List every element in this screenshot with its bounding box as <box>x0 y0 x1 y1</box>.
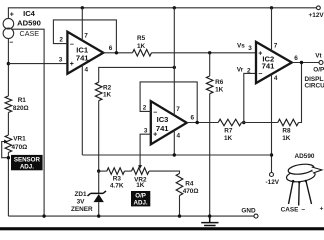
wire ground rail <box>8 215 254 217</box>
svg-text:7: 7 <box>84 33 88 40</box>
svg-text:2: 2 <box>247 67 251 74</box>
svg-text:−: − <box>258 71 262 78</box>
wire +12V top rail <box>8 8 317 19</box>
svg-text:ZD1: ZD1 <box>74 191 87 198</box>
svg-text:-12V: -12V <box>266 179 280 186</box>
resistor R8 1K <box>278 119 299 126</box>
wire IC2 output pin 6 <box>292 62 319 64</box>
svg-text:AD590: AD590 <box>17 18 41 27</box>
svg-text:7: 7 <box>274 43 278 50</box>
svg-text:3: 3 <box>248 45 252 52</box>
resistor R4 470ohm <box>176 174 183 196</box>
svg-text:1K: 1K <box>103 91 112 98</box>
svg-text:−: − <box>70 42 74 49</box>
svg-text:4: 4 <box>177 132 181 139</box>
label box SENSOR ADJ. <box>11 155 43 170</box>
svg-text:820Ω: 820Ω <box>13 105 29 112</box>
svg-text:1K: 1K <box>215 87 224 94</box>
svg-text:4.7K: 4.7K <box>110 183 124 190</box>
pin 4 IC3 <box>173 130 175 155</box>
pin 7 IC2 <box>271 8 273 51</box>
svg-text:CASE: CASE <box>20 29 40 38</box>
svg-text:+: + <box>153 131 157 138</box>
svg-text:+12V: +12V <box>309 12 324 19</box>
resistor R3 4.7K <box>99 170 107 172</box>
node Vs line / R6 <box>208 51 211 54</box>
AD590 package drawing <box>286 163 322 206</box>
svg-text:7: 7 <box>176 106 180 113</box>
svg-text:1K: 1K <box>137 43 146 50</box>
zener diode ZD1 3V <box>98 171 100 216</box>
wire IC3 pin 3 from VR2 wiper <box>140 134 151 167</box>
svg-text:AD590: AD590 <box>295 153 315 160</box>
node R3/R2/ZD1 <box>97 169 100 172</box>
pin 7 IC1 <box>81 8 83 41</box>
node IC3 pin4 on -12V run <box>173 153 176 156</box>
svg-text:R2: R2 <box>103 84 112 91</box>
svg-text:R6: R6 <box>215 79 224 86</box>
node case/rail <box>42 214 45 217</box>
wire IC1 pin 3 <box>8 63 67 65</box>
svg-text:R4: R4 <box>185 180 194 187</box>
wire IC2 pin 2 riser <box>244 73 256 122</box>
svg-text:741: 741 <box>156 124 169 133</box>
pin 4 IC2 down to -12V <box>271 74 273 172</box>
svg-text:VR1: VR1 <box>13 136 26 143</box>
svg-text:470Ω: 470Ω <box>183 188 199 195</box>
svg-text:−: − <box>153 110 157 117</box>
svg-text:3V: 3V <box>77 198 86 205</box>
wire IC1 output pin 6 (Vs line to IC2 pin 3) <box>103 52 256 54</box>
potentiometer VR1 470ohm <box>5 135 12 153</box>
svg-text:GND: GND <box>241 208 256 215</box>
node pin3 junction <box>7 62 10 65</box>
svg-text:6: 6 <box>294 55 298 62</box>
svg-text:IC3: IC3 <box>157 115 169 124</box>
op-amp IC2 741 <box>256 42 292 83</box>
svg-text:470Ω: 470Ω <box>12 144 28 151</box>
pin 4 IC1 <box>81 65 83 155</box>
svg-text:R7: R7 <box>224 127 233 134</box>
svg-text:IC4: IC4 <box>23 9 36 18</box>
wire -12V run (IC1 pin4 to IC2 pin4) <box>82 154 271 156</box>
label box O/P ADJ. <box>131 191 150 206</box>
wire left sensor column <box>7 39 9 217</box>
current source IC4 AD590 <box>3 18 14 29</box>
node rail-IC2 pin7 <box>270 6 273 9</box>
wire IC3 pin 2 + feedback loop to output <box>140 82 197 123</box>
node output/R8 <box>300 61 303 64</box>
wire zener bias from +12V line to R2 <box>99 67 175 82</box>
svg-text:R8: R8 <box>282 127 291 134</box>
svg-text:741: 741 <box>76 53 89 62</box>
terminal GND <box>254 214 258 218</box>
node R6/rail/ground <box>208 214 211 217</box>
wire AD590 case lead <box>12 29 44 216</box>
node R7/R8/IC2 pin2 <box>242 121 245 124</box>
svg-text:ADJ.: ADJ. <box>134 200 148 207</box>
svg-text:3: 3 <box>144 128 148 135</box>
wire IC3 output pin 6 <box>187 122 219 124</box>
potentiometer VR2 1K <box>125 170 132 172</box>
svg-text:Vs: Vs <box>237 42 245 49</box>
svg-text:2: 2 <box>143 105 147 112</box>
svg-text:−: − <box>301 206 305 213</box>
svg-text:ZENER: ZENER <box>71 206 93 213</box>
node IC3 out / feedback <box>196 121 199 124</box>
svg-text:2: 2 <box>59 37 63 44</box>
svg-text:R5: R5 <box>137 35 146 42</box>
node IC1 out / feedback <box>115 51 118 54</box>
svg-text:R3: R3 <box>113 176 122 183</box>
svg-text:6: 6 <box>191 115 195 122</box>
svg-text:1K: 1K <box>224 135 233 142</box>
svg-text:3: 3 <box>59 56 63 63</box>
resistor R7 1K <box>218 119 241 126</box>
svg-text:1K: 1K <box>136 182 145 189</box>
svg-text:4: 4 <box>85 67 89 74</box>
bottom border bar <box>0 227 324 230</box>
svg-text:R1: R1 <box>18 97 27 104</box>
svg-text:6: 6 <box>109 45 113 52</box>
svg-text:+: + <box>70 61 74 68</box>
wire IC1 pin 2 + feedback loop to pin 6 <box>53 20 116 53</box>
node rail-IC3 pin7 <box>173 6 176 9</box>
terminal +12V <box>317 6 321 10</box>
wire VR2 to R4 <box>149 171 180 173</box>
svg-text:CIRCUIT: CIRCUIT <box>305 83 324 90</box>
node bias tap on IC3 pin7 riser <box>173 66 176 69</box>
wire R8 to IC2 output <box>299 63 302 123</box>
pin 7 IC3 riser to +12V <box>173 8 175 116</box>
op-amp IC1 741 <box>67 32 103 74</box>
svg-text:4: 4 <box>274 75 278 82</box>
terminal -12V <box>270 173 274 177</box>
svg-text:Vr: Vr <box>237 67 244 74</box>
svg-text:O/P: O/P <box>313 66 324 73</box>
resistor R1 820ohm <box>5 96 12 113</box>
node R4/rail <box>178 214 181 217</box>
node rail-IC1 pin7 <box>81 6 84 9</box>
svg-text:741: 741 <box>262 61 275 70</box>
svg-text:ADJ.: ADJ. <box>20 163 34 170</box>
node zener/rail <box>97 214 100 217</box>
ground symbol <box>201 216 218 228</box>
svg-text:1K: 1K <box>282 135 291 142</box>
svg-text:+: + <box>10 11 14 18</box>
svg-text:+: + <box>320 205 324 212</box>
node -12V junction <box>270 153 273 156</box>
svg-text:+: + <box>258 50 262 57</box>
svg-text:CASE: CASE <box>281 207 299 214</box>
op-amp IC3 741 <box>151 101 187 144</box>
resistor R5 1K <box>133 50 152 57</box>
resistor R6 1K <box>206 76 213 94</box>
svg-text:−: − <box>9 40 13 47</box>
svg-text:Vt: Vt <box>315 53 322 60</box>
resistor R2 1K <box>95 82 102 101</box>
terminal Vt output <box>319 61 323 65</box>
